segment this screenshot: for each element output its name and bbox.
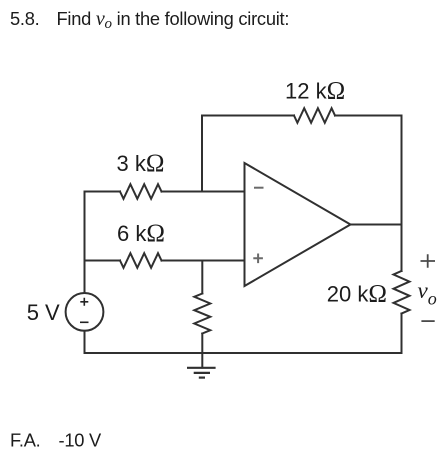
resistor R1 3k zigzag (120, 184, 162, 199)
op-amp U1 noninverting input plus sign (253, 254, 263, 264)
ground symbol (187, 368, 216, 378)
resistor R_f 12k zigzag (294, 108, 335, 123)
label output plus sign (421, 254, 436, 267)
wire right vertical lower (401, 314, 403, 354)
label output minus sign (421, 320, 434, 322)
wire below source (84, 331, 86, 353)
resistor R2 6k zigzag (120, 253, 162, 268)
svg-text:12 kΩ: 12 kΩ (285, 78, 345, 105)
svg-text:Find vo in the following circu: Find vo in the following circuit: (57, 8, 290, 32)
svg-text:6 kΩ: 6 kΩ (117, 220, 165, 247)
svg-text:3 kΩ: 3 kΩ (117, 150, 165, 177)
voltage source V1 circle (66, 293, 104, 331)
wire ground resistor stem bottom to ground (201, 334, 203, 368)
wire op-amp output (351, 224, 402, 226)
svg-text:F.A.: F.A. (10, 429, 41, 450)
wire ground resistor stem top (201, 261, 203, 294)
svg-text:-10 V: -10 V (59, 429, 103, 450)
wire feedback vertical (201, 116, 203, 192)
wire right vertical upper (401, 116, 403, 272)
wire bottom horizontal (85, 352, 402, 354)
svg-text:5.8.: 5.8. (10, 8, 40, 29)
wire 6k left (85, 260, 121, 262)
svg-text:5 V: 5 V (27, 300, 60, 325)
wire 3k right to inverting input (162, 191, 245, 193)
resistor R3 vertical zigzag (194, 294, 210, 334)
wire top left segment (202, 115, 294, 117)
wire 6k right to noninverting input (162, 260, 245, 262)
op-amp U1 inverting input minus sign (254, 187, 264, 189)
wire 3k left (85, 191, 121, 193)
wire top right segment (335, 115, 402, 117)
voltage source V1 plus sign (80, 298, 88, 306)
wire left vertical (84, 192, 86, 294)
resistor RL 20k zigzag (394, 271, 410, 314)
op-amp U1 triangle (245, 163, 351, 286)
svg-text:20 kΩ: 20 kΩ (327, 281, 387, 308)
voltage source V1 minus sign (80, 321, 89, 323)
